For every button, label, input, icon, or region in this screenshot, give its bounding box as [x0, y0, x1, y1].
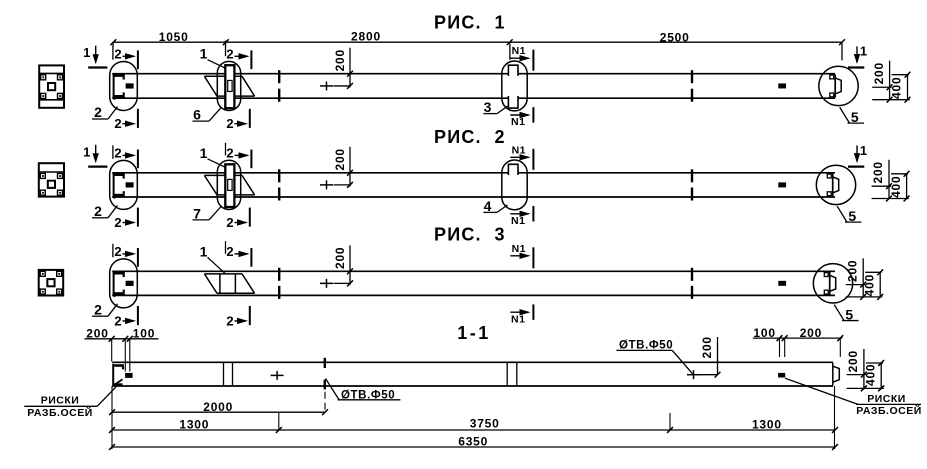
- dim 200/400 right fig3: [862, 258, 864, 297]
- dim 200/100 top-left: [85, 338, 159, 340]
- svg-text:ØТВ.Ф50: ØТВ.Ф50: [341, 389, 395, 401]
- hole cross fig3: [320, 282, 333, 284]
- svg-text:РИС.: РИС.: [434, 225, 482, 245]
- section mark 2 top-detail fig1: [225, 44, 227, 57]
- section mark 2 top-left fig3: [112, 244, 114, 257]
- svg-text:2: 2: [226, 146, 233, 161]
- left weld mark fig2: [126, 182, 134, 187]
- anchor plate parallelogram fig1: [204, 75, 242, 77]
- svg-text:1300: 1300: [752, 417, 782, 431]
- svg-text:400: 400: [890, 77, 904, 99]
- dim 200/400 right fig1: [889, 61, 891, 100]
- svg-text:2: 2: [114, 244, 121, 259]
- svg-text:N1: N1: [511, 116, 525, 128]
- extension line left x112: [111, 386, 113, 449]
- section mark 2 top-left fig1: [112, 46, 114, 60]
- dim 200 mid fig3: [349, 245, 351, 285]
- hole label OTV.F50 left: [326, 379, 340, 400]
- svg-text:7: 7: [193, 206, 201, 222]
- vertical insert detail fig1: [225, 65, 234, 108]
- dim 6350: [112, 446, 835, 448]
- extension line x325 dashed: [324, 392, 326, 413]
- hole cross left section: [271, 374, 284, 376]
- joint lines left pair: [223, 362, 225, 386]
- left weld mark fig1: [126, 83, 134, 88]
- section mark 2 top-detail fig2: [225, 143, 227, 156]
- svg-text:N1: N1: [511, 215, 525, 227]
- stirrup top slot fig2: [508, 164, 518, 175]
- plate internal lines fig3: [219, 274, 221, 293]
- svg-text:РИСКИ: РИСКИ: [867, 393, 906, 405]
- beam fig1 bottom line: [112, 97, 835, 99]
- svg-text:200: 200: [846, 350, 860, 372]
- svg-text:РИСКИ: РИСКИ: [41, 394, 80, 406]
- svg-text:4: 4: [484, 198, 492, 214]
- svg-text:2800: 2800: [351, 30, 381, 44]
- svg-text:400: 400: [889, 175, 903, 197]
- svg-text:200: 200: [333, 148, 347, 170]
- hole cross right section: [687, 374, 700, 376]
- svg-text:ØТВ.Ф50: ØТВ.Ф50: [619, 339, 673, 351]
- svg-text:1: 1: [860, 143, 867, 158]
- stirrup bottom slot fig1: [508, 96, 518, 108]
- svg-text:200: 200: [872, 62, 886, 84]
- right end bracket fig3: [829, 272, 831, 295]
- right end bracket fig2: [832, 173, 834, 196]
- stirrup oval fig2: [502, 160, 527, 210]
- weld mark right fig3: [778, 281, 786, 286]
- svg-text:2500: 2500: [660, 31, 690, 45]
- vertical insert detail fig2: [225, 164, 234, 207]
- joint marks x279.2 fig2: [278, 169, 280, 182]
- left embed bracket fig1: [113, 74, 125, 77]
- cross-section symbol fig1: [39, 65, 64, 107]
- beam fig3 bottom line: [112, 294, 835, 296]
- right end bracket fig1: [834, 74, 836, 97]
- svg-text:1: 1: [83, 45, 90, 60]
- detail oval fig2: [217, 160, 240, 209]
- section mark 1 right fig1: [856, 46, 858, 62]
- svg-text:2: 2: [114, 215, 121, 230]
- hole cross fig1: [320, 85, 333, 87]
- svg-text:200: 200: [333, 49, 347, 71]
- svg-text:РАЗБ.ОСЕЙ: РАЗБ.ОСЕЙ: [856, 404, 922, 417]
- right end circle fig1: [819, 66, 858, 105]
- section mark N1 bottom fig1: [510, 114, 528, 116]
- beam section top line: [112, 361, 833, 363]
- svg-text:200: 200: [700, 336, 714, 358]
- left embed oval fig3: [110, 259, 138, 308]
- svg-text:100: 100: [753, 326, 775, 340]
- section mark 2 top-left fig2: [112, 145, 114, 159]
- svg-text:1: 1: [200, 243, 208, 259]
- svg-text:1: 1: [495, 12, 505, 32]
- joint marks x692.0 fig2: [691, 169, 693, 182]
- beam fig3 top line: [112, 270, 835, 272]
- beam section left bracket: [114, 364, 124, 367]
- stirrup oval fig1: [502, 61, 527, 111]
- joint marks x279.2 fig1: [278, 70, 280, 83]
- svg-text:200: 200: [871, 161, 885, 183]
- dim 200 mid fig1: [349, 48, 351, 88]
- left weld mark fig3: [126, 281, 134, 286]
- svg-text:РИС.: РИС.: [434, 12, 482, 32]
- left embed bracket fig3: [113, 272, 125, 275]
- svg-text:N1: N1: [512, 45, 526, 57]
- joint lines right pair: [506, 362, 508, 386]
- svg-text:2: 2: [226, 244, 233, 259]
- cross-section symbol fig2: [39, 163, 64, 196]
- section mark N1 bottom fig2: [510, 213, 528, 215]
- extension line x278.8: [278, 413, 280, 431]
- beam section bottom line: [112, 385, 833, 387]
- joint marks x325 section: [324, 358, 326, 368]
- label 5 leader fig2: [837, 206, 847, 222]
- svg-text:400: 400: [863, 364, 877, 386]
- svg-text:N1: N1: [512, 144, 526, 156]
- label 5 leader fig1: [840, 107, 850, 123]
- section mark N1 bottom fig3: [510, 311, 528, 313]
- weld mark right section: [778, 373, 785, 378]
- weld mark right fig1: [778, 83, 786, 88]
- svg-text:2: 2: [94, 104, 102, 120]
- svg-text:200: 200: [800, 326, 822, 340]
- cross-section symbol fig3: [39, 270, 64, 296]
- weld mark right fig2: [778, 182, 786, 187]
- svg-text:2000: 2000: [203, 400, 233, 414]
- svg-text:5: 5: [851, 109, 859, 125]
- left embed oval fig1: [110, 61, 138, 110]
- svg-text:200: 200: [845, 260, 859, 282]
- svg-text:1-1: 1-1: [457, 323, 491, 343]
- dim extension lines fig1: [509, 44, 511, 60]
- svg-text:1300: 1300: [179, 418, 209, 432]
- svg-text:2: 2: [226, 46, 233, 61]
- beam section right edge: [832, 363, 834, 386]
- section mark 1 right fig2: [856, 146, 858, 162]
- joint marks x692.0 fig3: [691, 268, 693, 281]
- stirrup top slot fig1: [508, 65, 518, 76]
- hole cross fig2: [320, 184, 333, 186]
- svg-text:6350: 6350: [458, 434, 488, 448]
- section mark 2 top-detail fig3: [225, 241, 227, 254]
- anchor plate parallelogram fig2: [204, 174, 242, 176]
- anchor plate parallelogram fig3: [204, 273, 242, 275]
- svg-text:2: 2: [114, 146, 121, 161]
- svg-text:3: 3: [495, 225, 505, 245]
- svg-text:3750: 3750: [470, 417, 500, 431]
- dim 200 hole right: [717, 337, 719, 375]
- dim 200/400 right section: [863, 349, 865, 389]
- svg-text:2: 2: [94, 203, 102, 219]
- right end circle fig2: [816, 165, 855, 204]
- dim 2000: [112, 411, 325, 413]
- beam fig1 top line: [112, 73, 835, 75]
- svg-text:N1: N1: [512, 243, 526, 255]
- svg-text:2: 2: [94, 301, 102, 317]
- extension line right x834.5: [834, 386, 836, 449]
- right end circle fig3: [813, 264, 852, 303]
- svg-text:5: 5: [848, 208, 856, 224]
- svg-text:2: 2: [226, 313, 233, 328]
- svg-text:1: 1: [860, 44, 867, 59]
- svg-text:2: 2: [226, 215, 233, 230]
- svg-text:400: 400: [862, 274, 876, 296]
- dim 100/200 top-right: [753, 337, 842, 339]
- svg-text:2: 2: [114, 46, 121, 61]
- svg-text:1: 1: [200, 46, 208, 62]
- svg-text:200: 200: [333, 247, 347, 269]
- svg-text:200: 200: [86, 326, 108, 340]
- svg-text:2: 2: [114, 116, 121, 131]
- dim 200 mid fig2: [349, 147, 351, 187]
- svg-text:2: 2: [495, 127, 505, 147]
- detail oval fig1: [217, 61, 240, 110]
- extension line x670: [669, 413, 671, 431]
- beam section left weld mark: [125, 373, 133, 378]
- svg-text:2: 2: [114, 313, 121, 328]
- svg-text:РИС.: РИС.: [434, 127, 482, 147]
- dim line 1050/2800/2500 fig1: [113, 41, 842, 43]
- svg-text:2: 2: [226, 116, 233, 131]
- svg-text:100: 100: [133, 326, 155, 340]
- beam fig2 top line: [112, 172, 835, 174]
- svg-text:1050: 1050: [159, 30, 189, 44]
- svg-text:5: 5: [845, 306, 853, 322]
- joint marks x692.0 fig1: [691, 70, 693, 83]
- label 5 leader fig3: [834, 305, 844, 321]
- svg-text:1: 1: [200, 145, 208, 161]
- svg-text:1: 1: [83, 144, 90, 159]
- joint marks x279.2 fig3: [278, 268, 280, 281]
- svg-text:3: 3: [484, 99, 492, 115]
- axis marks label right: [785, 378, 858, 404]
- dim 1300/3750/1300: [112, 429, 835, 431]
- dim 200/400 right fig2: [888, 160, 890, 199]
- svg-text:РАЗБ.ОСЕЙ: РАЗБ.ОСЕЙ: [27, 406, 93, 419]
- beam fig2 bottom line: [112, 196, 835, 198]
- svg-text:N1: N1: [511, 313, 525, 325]
- left embed oval fig2: [110, 160, 138, 209]
- left embed bracket fig2: [113, 173, 125, 176]
- svg-text:6: 6: [193, 107, 201, 123]
